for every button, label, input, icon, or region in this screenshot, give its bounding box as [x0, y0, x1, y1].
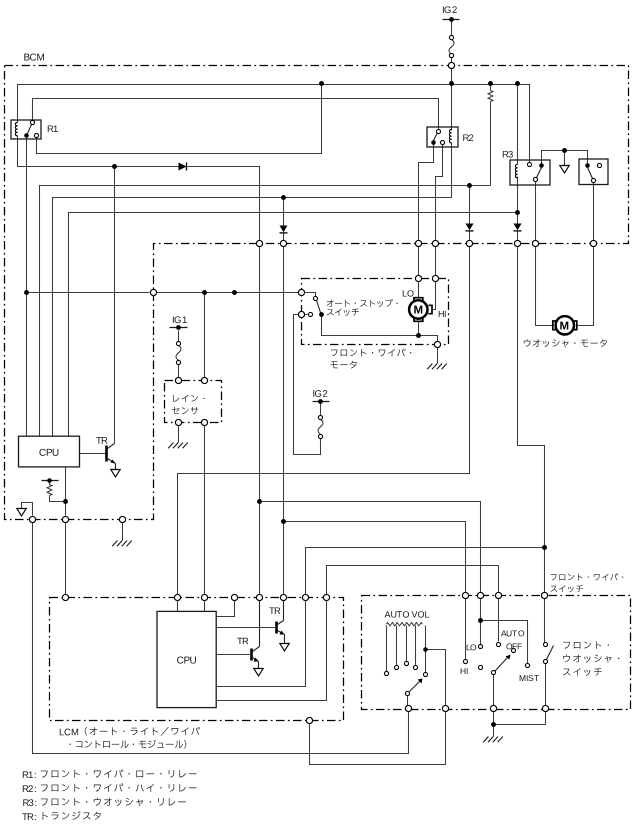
label BCM	[24, 54, 44, 61]
label HI motor	[439, 311, 446, 317]
CPU U2 box	[157, 611, 216, 707]
node: LCM pin bottom	[306, 717, 312, 723]
wire: x283 junction to HI contact line	[284, 522, 466, 593]
fuse F3	[318, 415, 323, 438]
junction: IG2/R2 coil on supply rail	[449, 81, 454, 86]
wire: CPU1 base drive to TR1	[80, 453, 106, 455]
wire: node y292 left of boundary	[27, 292, 150, 294]
legend R2 text (JP)	[41, 783, 197, 791]
label: LCM name line1 (JP)	[85, 727, 200, 736]
transistor TR3	[252, 601, 260, 669]
wire: IG1 fuse to rain sensor	[178, 365, 180, 378]
label: auto stop switch line1 (JP)	[327, 299, 398, 307]
junction: LO/MIST branch node	[478, 618, 483, 623]
wire: IG2 feed into fuse	[451, 22, 453, 36]
wire: sense junction y186 to diode D1	[469, 186, 471, 224]
wire: LO branch to MIST contact	[481, 621, 528, 664]
wire: motor HI into enclosure	[435, 247, 437, 276]
diode D3	[514, 224, 522, 231]
junction: HI line tap x283	[281, 519, 286, 524]
wire: R3 output to washer motor left	[535, 182, 537, 241]
wire: CPU pin4 to line y212 to R3 coil junction	[69, 213, 518, 437]
node: auto stop NO entry	[298, 289, 304, 295]
wire: HI feed line	[465, 599, 467, 660]
wire: resistor R4 to sense line y186	[490, 102, 492, 186]
label AUTO VOL	[385, 611, 430, 617]
wire: R1 switch top to R2 switch top	[33, 99, 439, 130]
wire: washer switch line to washer motor right	[593, 183, 595, 241]
junction: diode D1 tap y186	[467, 183, 472, 188]
node: x259 BCM exit	[256, 240, 262, 246]
washer switch S3 contacts	[543, 642, 553, 663]
transistor TR1	[107, 444, 116, 470]
BCM module boundary	[5, 66, 629, 520]
wire: rain sensor to ground	[178, 426, 180, 443]
wire: auto stop common to motor bottom to ground	[322, 317, 438, 342]
off-page arrow at R3 link	[560, 166, 569, 173]
wire: supply rail to resistor R4 branch	[490, 84, 492, 91]
node: rain sensor in right	[201, 377, 207, 383]
relay R2	[427, 127, 458, 147]
node: LCM pin x326	[323, 594, 329, 600]
label LO switch	[467, 644, 477, 650]
wire: IG2b fuse to auto stop contact	[294, 315, 321, 455]
node: motor box LO entry	[415, 275, 421, 281]
wire: LCM x204 into CPU2	[204, 601, 206, 612]
wire: boundary to supply rail and R2 coil	[451, 69, 453, 131]
label: LCM name line2 (JP)	[70, 740, 187, 749]
wire: boundary pin to ground	[122, 523, 124, 541]
junction: CPU output/pull-up node	[63, 499, 68, 504]
auto stop switch contacts	[308, 296, 323, 316]
junction: TR1 collector tap y166	[112, 164, 117, 169]
wire: R1 common down to CPU pin1	[26, 138, 28, 437]
wire: boundary jog to arrow	[22, 503, 33, 516]
node: LCM pin x283	[280, 594, 286, 600]
wire: R1 NO contact to supply rail	[37, 84, 322, 154]
chassis ground below wiper motor	[427, 364, 447, 370]
node: rain sensor out right	[201, 419, 207, 425]
label LO motor	[403, 290, 414, 296]
TR3 base wire	[217, 654, 252, 656]
wire: AUTO VOL right tap branch	[426, 650, 446, 706]
label: front wiper switch line1 (JP)	[551, 573, 624, 580]
pull-up supply bar	[42, 478, 59, 483]
label MIST	[520, 675, 539, 681]
node: rain sensor out left	[175, 419, 181, 425]
label TR1	[96, 437, 107, 444]
node: IG2 entry to BCM	[448, 62, 454, 68]
label R1	[48, 125, 58, 132]
chassis ground below rain sensor	[168, 443, 188, 449]
wire: supply rail to R3 coil	[517, 84, 519, 165]
chassis ground below boundary pin	[112, 541, 132, 547]
diode D4 horizontal	[179, 163, 187, 171]
node: LCM pin x259	[256, 594, 262, 600]
resistor R5	[47, 485, 52, 496]
rotary switch contacts HI LO AUTO OFF MIST	[463, 642, 529, 669]
label: front wiper motor line1 (JP)	[331, 349, 411, 357]
wire: rotary common down	[493, 675, 495, 706]
junction: rain sensor tap y292	[202, 290, 207, 295]
junction: resistor tap on supply rail	[488, 81, 493, 86]
label LCM prefix	[60, 729, 78, 736]
wire: AUTO VOL tap 4	[415, 626, 417, 666]
wire: resistor R5 to CPU output	[50, 496, 66, 502]
node: switch box HI pin	[462, 592, 468, 598]
legend TR text (JP)	[43, 811, 101, 820]
resistor R4	[488, 91, 493, 102]
front wiper motor enclosure	[302, 279, 449, 345]
label IG2 top	[443, 6, 457, 13]
label: front wiper motor line2 (JP)	[331, 361, 357, 369]
wire: auto stop NO contact	[305, 293, 316, 297]
wire: LCM x305 up to R3 sense junction	[306, 548, 545, 595]
label: front wiper switch line2 (JP)	[550, 585, 583, 592]
wire: CPU pin2 up to sense line y186	[40, 186, 491, 437]
wire: node y292 to auto stop switch	[157, 292, 299, 294]
node: auto stop NC entry	[298, 311, 304, 317]
ground arrow at BCM boundary	[17, 509, 26, 516]
node: x469 BCM exit	[466, 240, 472, 246]
chassis ground below switch box	[483, 737, 503, 743]
junction: R3 coil/D3 node y212	[515, 210, 520, 215]
node: LCM pin x204	[201, 594, 207, 600]
wire: motor LO into enclosure	[418, 247, 420, 276]
junction: R3 sense tap	[542, 545, 547, 550]
wire: LO feed line in switch box	[480, 599, 482, 645]
IG1 supply bar	[170, 325, 188, 330]
diode D2	[280, 226, 288, 233]
wire: R1 coil bottom to diode D4	[18, 136, 179, 167]
label IG2 lower	[313, 390, 327, 397]
node: rain sensor in left	[175, 377, 181, 383]
node: y292 BCM exit	[150, 289, 156, 295]
label: rain sensor line1 (JP)	[173, 395, 204, 402]
label IG1	[173, 316, 187, 323]
node: switch box pin rotary common	[490, 705, 496, 711]
wire: CPU pin3 to line y197 to R2 coil bottom	[53, 143, 452, 437]
node: switch box AUTO pin	[495, 592, 501, 598]
label R2	[463, 134, 473, 141]
label: washer motor (JP)	[524, 339, 607, 347]
label: auto stop switch line2 (JP)	[327, 309, 359, 316]
wire: x259 junction to LO contact line	[260, 502, 481, 593]
label AUTO	[501, 630, 524, 636]
wire: diode D2 to boundary	[283, 234, 285, 241]
junction: LO line tap x259	[257, 499, 262, 504]
fuse F2	[176, 341, 181, 364]
wire: y197 branch to diode D2	[283, 198, 285, 226]
label CPU2	[177, 657, 196, 664]
wire: R3 coil bottom to junction	[517, 177, 519, 224]
wire: LCM x234 jog into CPU2 side	[217, 601, 235, 617]
wire: AUTO feed line	[498, 599, 500, 642]
TR3 emitter arrow	[254, 669, 263, 676]
wire: x32 long run to wiper switch common	[33, 523, 409, 754]
wire: rain sensor to LCM	[204, 426, 206, 595]
node: LCM pin x178	[174, 594, 180, 600]
wire: fuse to BCM boundary	[451, 58, 453, 63]
node: motor LO BCM exit	[415, 240, 421, 246]
wire: washer motor right feed	[577, 247, 594, 326]
relay R3	[510, 160, 550, 185]
junction: R1 common node y292	[24, 290, 29, 295]
node: motor box HI entry	[432, 275, 438, 281]
wire: diode D3 to boundary	[517, 232, 519, 241]
label HI switch	[461, 668, 468, 674]
legend TR prefix	[22, 813, 36, 820]
junction: switch ground node	[491, 722, 496, 727]
CPU U1 box	[19, 436, 80, 467]
label: front washer switch line1 (JP)	[563, 641, 609, 649]
label: rain sensor line2 (JP)	[172, 407, 198, 414]
junction: motor bottom node	[416, 333, 421, 338]
TR2 emitter arrow	[280, 644, 289, 651]
wire: x259 BCM boundary down to LCM	[259, 247, 261, 595]
wire: link to output arrow	[564, 151, 566, 166]
TR2 base wire	[217, 627, 277, 629]
junction: R3 coil tap on supply rail	[515, 81, 520, 86]
node: washer left BCM exit	[532, 240, 538, 246]
junction: R3 link node	[562, 148, 567, 153]
wire: auto stop NC contact stub	[305, 314, 308, 316]
wire: IG2b feed to fuse	[320, 404, 322, 416]
wire: TR1 collector from y166 junction	[114, 167, 116, 444]
wire: switch commons to ground node	[493, 712, 495, 737]
wire: pull-up resistor R5 branch	[49, 483, 51, 485]
wire: AUTO VOL tap 2	[396, 626, 398, 666]
TR1 emitter arrow	[111, 470, 120, 477]
node: LCM pin x65	[62, 594, 68, 600]
junction: LCM line tap y292	[232, 290, 237, 295]
wire: diode D4 to LCM line x259	[188, 167, 260, 241]
label CPU1	[39, 449, 58, 456]
wire: R2 common to motor LO line	[419, 145, 434, 241]
transistor TR2	[277, 601, 285, 644]
wire: washer motor left feed	[536, 247, 553, 326]
wire: motor box boundary to ground	[437, 348, 439, 364]
wire: R2 NO to motor HI line	[436, 145, 443, 241]
wire: CPU1 bottom output	[65, 467, 67, 516]
node: motor HI BCM exit	[432, 240, 438, 246]
LCM module boundary	[50, 598, 344, 721]
AUTO VOL wiper arm	[405, 679, 422, 696]
wire: wiper motor HI terminal	[433, 282, 436, 310]
wire: CPU1 output to LCM	[65, 523, 67, 595]
wire: IG1 feed to fuse	[178, 331, 180, 342]
relay R1	[11, 120, 41, 139]
wire: wiper motor bottom terminal	[418, 322, 420, 336]
label OFF	[506, 643, 521, 649]
wire: R1 coil top to supply rail y84 to R3 switch feed	[18, 85, 530, 163]
IG2 supply bar top	[443, 17, 460, 22]
wire: LCM x326 up to AUTO contact	[327, 566, 499, 595]
wire: AUTO VOL output to LCM	[310, 712, 446, 765]
legend R1 text (JP)	[41, 769, 197, 777]
junction: R1-NO tap on supply rail	[319, 81, 324, 86]
node: LCM pin x234	[231, 594, 237, 600]
wire: R3 common link to switch S2	[542, 151, 588, 164]
wire: washer switch feed line	[544, 599, 546, 643]
wire: AUTO VOL wiper arm common	[407, 696, 409, 706]
label R3	[503, 151, 513, 158]
node: motor box ground exit	[434, 341, 440, 347]
wire: y292 branch to rain sensor	[204, 293, 206, 378]
node: BCM pin x122	[119, 516, 125, 522]
junction: diode D2 tap y197	[281, 195, 286, 200]
label TR3	[237, 638, 248, 645]
IG2 supply bar lower	[313, 399, 330, 404]
rotary switch arm	[491, 655, 510, 675]
wire: LCM x326 into CPU2 right	[217, 601, 327, 701]
node: washer right BCM exit	[590, 240, 596, 246]
node: switch box pin washer common	[542, 705, 548, 711]
AUTO VOL potentiometer	[384, 623, 427, 677]
wire: washer common to ground node	[494, 712, 546, 725]
wire: diode D1 to boundary	[469, 232, 471, 241]
wire: wiper motor LO terminal	[418, 282, 420, 298]
wire: x283 boundary down to LCM and TR2 collector	[283, 247, 285, 595]
label TR2	[269, 607, 280, 614]
node: x517 BCM exit	[514, 240, 520, 246]
wire: x469 boundary down left to LCM x178	[178, 247, 470, 595]
front wiper switch enclosure	[362, 596, 631, 710]
node: switch box pin autovol-right	[442, 705, 448, 711]
node: LCM pin x305	[302, 594, 308, 600]
node: switch box pin autovol-left	[405, 705, 411, 711]
washer motor M2	[553, 316, 577, 334]
legend R1 prefix	[23, 771, 36, 778]
wire: AUTO VOL tap 5	[425, 626, 427, 673]
node: switch box washer pin	[541, 592, 547, 598]
rain sensor enclosure	[165, 381, 222, 423]
wiper motor M1	[409, 298, 432, 322]
wire: LCM x178 into CPU2	[177, 601, 179, 612]
wire: washer switch common down	[545, 664, 547, 706]
legend R2 prefix	[23, 785, 36, 792]
node: switch box LO pin	[477, 592, 483, 598]
legend R3 prefix	[23, 799, 36, 806]
wire: LCM x305 into CPU2 right	[217, 601, 306, 687]
fuse F1	[449, 35, 454, 57]
wire: AUTO VOL tap 3	[406, 626, 408, 662]
label: front washer switch line3 (JP)	[563, 668, 602, 676]
legend R3 text (JP)	[41, 798, 186, 806]
diode D1	[466, 224, 474, 231]
wire: AUTO VOL tap 1	[386, 626, 388, 672]
node: x283 BCM exit	[280, 240, 286, 246]
node: BCM pin x32	[29, 516, 35, 522]
wire: x517 boundary jog to wiper switch feed	[518, 247, 545, 593]
washer cut-off switch S2	[579, 159, 608, 185]
node: BCM pin x65	[62, 516, 68, 522]
label: front washer switch line2 (JP)	[563, 654, 619, 662]
